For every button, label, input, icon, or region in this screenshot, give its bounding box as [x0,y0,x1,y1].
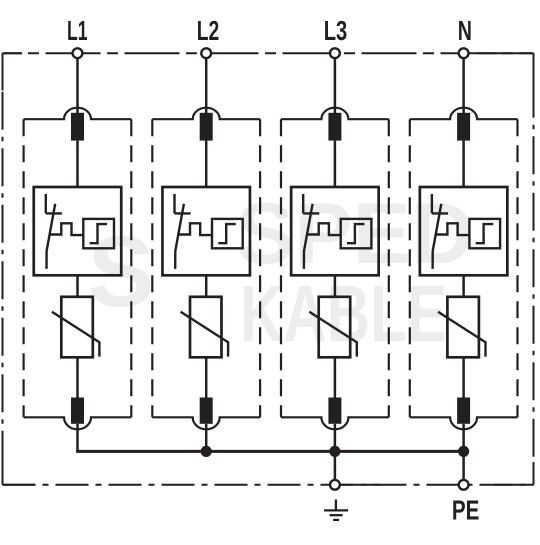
junction L2/bus [201,446,212,457]
wire N terminal to top connection block [462,58,465,113]
wire block to disconnector L1 [76,141,79,187]
SPD protection path N: module box (dashed) [410,108,518,430]
device enclosure outline (dash-dot) [3,53,534,485]
svg-text:PE: PE [452,495,480,526]
connection block (top, filled) L1 [71,113,84,141]
terminal N [459,48,469,58]
thermal disconnector with status indication L1 [34,187,122,275]
ground (earth) symbol [324,500,348,520]
wire L2 terminal to top connection block [205,58,208,113]
connection block (bottom, filled) N [457,398,470,424]
connection block (top, filled) L3 [328,113,341,141]
wire bus to PE terminal [462,451,465,484]
svg-text:KABLE: KABLE [240,269,447,358]
wire block to disconnector L2 [205,141,208,187]
PE collecting bus wire [76,450,464,453]
wire disconnector to varistor L3 [334,275,337,297]
svg-text:L3: L3 [324,15,348,46]
svg-text:L2: L2 [197,15,220,46]
wire block to disconnector N [462,141,465,187]
wire block to PE bus L3 [334,424,337,452]
wire varistor to bottom connection block L1 [76,357,79,397]
connection block (bottom, filled) L1 [71,398,84,424]
wire disconnector to varistor N [462,275,465,297]
SPD protection path L2: module box (dashed) [152,108,260,430]
varistor (MOV) L3 [309,297,357,358]
wire block to disconnector L3 [334,141,337,187]
wire varistor to bottom connection block N [462,357,465,397]
varistor (MOV) L2 [181,297,229,358]
terminal PE [459,480,469,490]
wire disconnector to varistor L2 [205,275,208,297]
connection block (top, filled) N [457,113,470,141]
varistor (MOV) N [438,297,486,358]
svg-text:L1: L1 [67,15,88,46]
varistor (MOV) L1 [52,297,100,358]
junction N/bus [458,446,469,457]
svg-text:N: N [458,15,472,46]
terminal L2 [201,48,211,58]
wire bus to earth terminal [334,451,337,484]
SPD protection path L3: module box (dashed) [281,108,389,430]
wire block to PE bus L1 [76,424,79,452]
wire varistor to bottom connection block L2 [205,357,208,397]
thermal disconnector with status indication L2 [162,187,250,275]
connection block (bottom, filled) L3 [328,398,341,424]
earth terminal [330,480,340,490]
terminal L1 [73,48,83,58]
SPD protection path L1: module box (dashed) [24,108,132,430]
wire L3 terminal to top connection block [334,58,337,113]
wire varistor to bottom connection block L3 [334,357,337,397]
wire block to PE bus L2 [205,424,208,452]
junction L3/bus [329,446,340,457]
terminal L3 [330,48,340,58]
wire block to PE bus N [462,424,465,452]
thermal disconnector with status indication N [420,187,508,275]
connection block (top, filled) L2 [200,113,213,141]
connection block (bottom, filled) L2 [200,398,213,424]
watermark [88,186,474,358]
wire L1 terminal to top connection block [76,58,79,113]
wire disconnector to varistor L1 [76,275,79,297]
thermal disconnector with status indication L3 [291,187,379,275]
